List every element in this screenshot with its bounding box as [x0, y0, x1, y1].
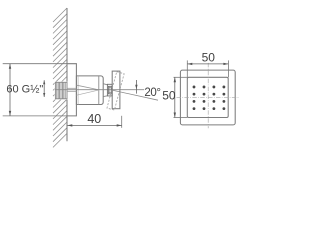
svg-text:60 G½": 60 G½" — [6, 84, 43, 96]
svg-text:20°: 20° — [144, 87, 160, 99]
svg-text:50: 50 — [202, 50, 216, 64]
svg-text:40: 40 — [87, 112, 101, 126]
svg-text:50: 50 — [162, 89, 176, 103]
